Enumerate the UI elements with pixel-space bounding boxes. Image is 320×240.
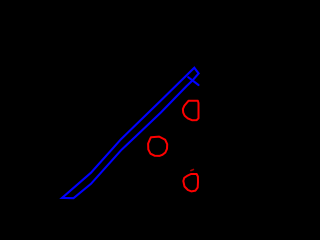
red circle 3 faint stroke overshoot [191, 170, 194, 171]
red circle 1 (top right) [183, 101, 199, 121]
red circle 3 (bottom right) [183, 174, 198, 191]
blue arrow barb stroke crossing the head [188, 77, 198, 85]
blue arrow (outlined shaft, closed pennant head) [62, 68, 199, 199]
red circle 2 (middle) [148, 137, 167, 156]
